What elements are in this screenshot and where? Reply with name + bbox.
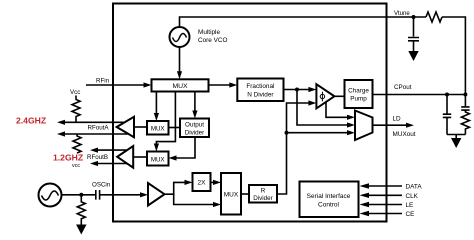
svg-text:Vtune: Vtune (394, 11, 410, 17)
wire R divider to phase detector (277, 103, 309, 194)
svg-text:LD: LD (393, 116, 402, 123)
VCO oscillator symbol (170, 27, 190, 47)
wire RFoutA plus (64, 121, 131, 123)
wire LE (366, 204, 402, 206)
wire N divider junction to MUXout mux (297, 90, 348, 126)
wire Vtune node to capacitor (413, 17, 415, 37)
resistor (OSCin pulldown) (77, 195, 85, 225)
wire CE (366, 213, 402, 215)
svg-text:MUX: MUX (151, 156, 165, 163)
wire MUX to Fractional N Divider (209, 84, 230, 86)
wire OSCin to buffer (100, 194, 141, 196)
svg-text:Divider: Divider (185, 130, 205, 137)
wire 2X to OSC mux (211, 181, 215, 183)
buffer U6 (RFoutA) (117, 117, 134, 137)
resistor (Vtune series) (426, 12, 442, 22)
ground (Vtune cap) (413, 41, 415, 51)
svg-text:DATA: DATA (406, 184, 423, 191)
wire charge pump to CPout (373, 94, 466, 96)
buffer U7 (RFoutB) (117, 146, 133, 168)
output divider block (180, 119, 209, 138)
wire VCO to Vtune (180, 17, 427, 27)
svg-text:CPout: CPout (394, 84, 412, 91)
svg-text:R: R (261, 188, 266, 195)
capacitor (loop filter series) (464, 95, 466, 107)
wire MUX to output mux B (156, 92, 175, 145)
svg-text:vcc: vcc (72, 163, 80, 169)
svg-text:LE: LE (406, 202, 414, 209)
wire MUXout (373, 124, 407, 126)
chip outline (113, 4, 387, 222)
wire loop filter bottom rail (447, 134, 465, 136)
wire MUX to output divider (194, 92, 196, 112)
wire MUX to RFoutA buffer (134, 126, 147, 128)
svg-text:2.4GHZ: 2.4GHZ (16, 116, 46, 126)
node R divider branch junction (285, 131, 289, 135)
wire OSC mux to R divider (241, 193, 249, 195)
serial interface control block (300, 182, 359, 218)
mux U3 (MUXout mux) (355, 111, 373, 141)
wire output divider to RFoutA mux (169, 127, 181, 129)
wire DATA (366, 185, 402, 187)
node N divider output junction (295, 88, 299, 92)
wire Vtune resistor to CPout node (442, 17, 465, 95)
resistor (RFoutA minus pull-up) (73, 134, 81, 153)
ground (loop filter) (455, 135, 457, 139)
svg-text:RFin: RFin (96, 78, 110, 85)
ground (OSCin) (76, 225, 86, 235)
wire phase detector to charge pump (334, 95, 344, 97)
mux U1 (VCO/RFin MUX) (152, 79, 209, 91)
mux U5 (RFoutB mux) (147, 152, 169, 166)
wire VCO to MUX (179, 47, 181, 72)
wire phase detector to MUXout mux (326, 102, 348, 117)
fractional N divider block (237, 79, 283, 102)
mux U9 (OSC path mux) (221, 173, 241, 215)
svg-text:Pump: Pump (350, 96, 367, 103)
svg-text:2X: 2X (198, 180, 207, 187)
resistor (RFoutA pull-up) (72, 96, 80, 123)
svg-text:RFoutB: RFoutB (87, 154, 108, 161)
svg-text:1.2GHZ: 1.2GHZ (53, 153, 83, 163)
svg-text:CLK: CLK (406, 193, 419, 200)
svg-text:Core VCO: Core VCO (198, 37, 228, 44)
svg-text:MUX: MUX (224, 192, 239, 199)
svg-text:OSCin: OSCin (92, 182, 111, 189)
node CPout cap junction (445, 93, 449, 97)
svg-text:CE: CE (406, 211, 415, 218)
node oscillator pulldown junction (79, 193, 83, 197)
wire MUX to output mux A (155, 92, 157, 114)
node CPout resistor junction (463, 93, 467, 97)
svg-text:MUXout: MUXout (393, 131, 416, 138)
wire buffer to 2X (165, 182, 186, 194)
capacitor (Vtune shunt) (408, 38, 419, 41)
svg-text:Control: Control (318, 202, 340, 209)
buffer U8 (OSCin) (148, 183, 165, 206)
svg-text:Fractional: Fractional (246, 83, 274, 90)
svg-text:MUX: MUX (151, 126, 165, 133)
wire RFoutB plus (97, 149, 130, 151)
wire RFoutA minus (64, 133, 131, 135)
R divider block (249, 185, 277, 203)
svg-text:Charge: Charge (348, 88, 369, 95)
capacitor (loop filter shunt) (446, 95, 448, 114)
svg-text:Output: Output (185, 122, 204, 129)
wire output divider to RFoutB mux (176, 137, 195, 158)
charge pump block (345, 80, 373, 108)
capacitor (OSCin coupling) (96, 190, 100, 200)
wire CLK (366, 194, 402, 196)
mux U4 (RFoutA mux) (147, 121, 169, 135)
phase detector U2 (316, 84, 334, 108)
wire N divider to phase detector (284, 89, 310, 91)
svg-text:N Divider: N Divider (247, 92, 274, 99)
oscillator source symbol (39, 184, 62, 207)
svg-text:Serial Interface: Serial Interface (307, 193, 351, 200)
svg-text:Multiple: Multiple (198, 29, 220, 36)
wire RFoutB mux to buffer (133, 156, 147, 158)
svg-text:Vcc: Vcc (70, 89, 80, 96)
wire buffer to doubler bypass (174, 194, 214, 204)
resistor (loop filter series) (461, 110, 469, 134)
wire RFoutB minus (97, 163, 130, 165)
svg-text:RFoutA: RFoutA (88, 124, 110, 131)
svg-text:Divider: Divider (253, 195, 273, 202)
doubler 2X block (193, 173, 211, 191)
svg-text:MUX: MUX (172, 83, 188, 90)
node Vtune junction (412, 15, 416, 19)
wire R divider junction to MUXout mux (287, 132, 348, 134)
wire RFin to MUX (86, 84, 144, 86)
wire oscillator to coupling cap (62, 194, 96, 196)
